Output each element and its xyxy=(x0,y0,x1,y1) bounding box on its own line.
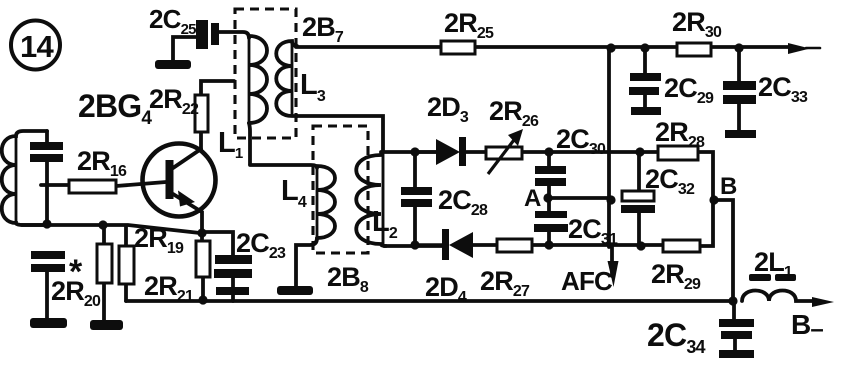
svg-text:L4: L4 xyxy=(281,175,307,211)
svg-text:2D4: 2D4 xyxy=(425,272,467,306)
svg-text:2C23: 2C23 xyxy=(236,228,286,262)
svg-text:2R21: 2R21 xyxy=(144,271,194,305)
svg-text:2C33: 2C33 xyxy=(758,72,808,106)
svg-text:2R25: 2R25 xyxy=(444,8,494,42)
svg-text:2R16: 2R16 xyxy=(77,146,127,180)
svg-text:AFC: AFC xyxy=(561,266,613,296)
svg-text:L3: L3 xyxy=(300,69,326,105)
svg-text:2C32: 2C32 xyxy=(645,164,695,198)
svg-text:*: * xyxy=(69,253,83,291)
svg-text:L2: L2 xyxy=(372,206,398,242)
svg-text:2R22: 2R22 xyxy=(149,84,199,118)
svg-text:2R28: 2R28 xyxy=(655,117,705,151)
svg-text:2C34: 2C34 xyxy=(647,317,706,357)
svg-text:A: A xyxy=(524,185,541,212)
svg-text:2R27: 2R27 xyxy=(480,266,530,300)
svg-text:2R26: 2R26 xyxy=(489,96,539,130)
svg-text:L1: L1 xyxy=(218,127,243,162)
svg-text:2B8: 2B8 xyxy=(327,262,369,296)
svg-text:2R19: 2R19 xyxy=(134,223,184,257)
svg-text:B: B xyxy=(720,173,737,200)
svg-text:2C25: 2C25 xyxy=(149,4,196,38)
svg-text:2C30: 2C30 xyxy=(556,124,606,158)
svg-text:2D3: 2D3 xyxy=(427,92,469,126)
svg-text:2C28: 2C28 xyxy=(438,185,488,219)
svg-text:2B7: 2B7 xyxy=(302,12,344,46)
svg-text:2L1: 2L1 xyxy=(754,247,793,281)
svg-text:2R30: 2R30 xyxy=(672,7,722,41)
svg-text:B–: B– xyxy=(791,309,823,343)
svg-text:2C29: 2C29 xyxy=(664,73,714,107)
svg-text:14: 14 xyxy=(20,29,54,64)
svg-text:2BG4: 2BG4 xyxy=(78,88,152,129)
svg-text:2R29: 2R29 xyxy=(651,259,701,293)
